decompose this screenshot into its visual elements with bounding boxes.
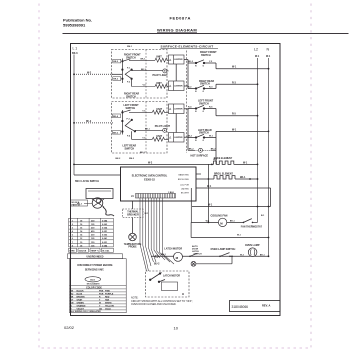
wire L2 bus (257, 58, 259, 222)
right front switch label (in box) (124, 54, 141, 60)
wire N bus (268, 58, 270, 256)
wire L1 to right box dotted (74, 73, 113, 75)
svg-text:BROIL ELEMENT: BROIL ELEMENT (214, 173, 234, 175)
left front switch (right column) (198, 100, 214, 106)
hot surface pilot light (188, 149, 195, 151)
color code table rows (70, 289, 127, 310)
svg-text:UNGROUNDED: UNGROUNDED (87, 257, 104, 259)
svg-text:YELLOW: YELLOW (105, 305, 114, 307)
wire to L2 y84.3 (216, 83, 258, 85)
svg-text:LATCH MOTOR: LATCH MOTOR (163, 275, 180, 278)
switch S2 left front contacts (122, 110, 136, 139)
svg-text:SWITCH: SWITCH (200, 83, 210, 86)
svg-text:W-2: W-2 (87, 72, 92, 74)
temperature probe (129, 233, 137, 241)
limiter box 4 (167, 133, 184, 143)
fan thermostat (244, 219, 252, 223)
small ref box (71, 200, 88, 206)
svg-text:L 1: L 1 (73, 47, 78, 51)
main border box (71, 44, 281, 316)
svg-text:LIMITER: LIMITER (174, 59, 183, 61)
svg-text:BAKE ELEMENT: BAKE ELEMENT (214, 157, 233, 160)
cooling fan circuit (191, 188, 268, 238)
svg-text:W-2: W-2 (148, 163, 153, 165)
latch switch contacts (149, 273, 165, 283)
svg-text:W-1: W-1 (208, 205, 213, 207)
svg-text:TAN: TAN (105, 298, 110, 301)
svg-text:W-1: W-1 (232, 67, 237, 69)
svg-text:W-1: W-1 (266, 56, 271, 58)
svg-text:N: N (267, 48, 270, 52)
dashed enclosure right edge (186, 51, 188, 154)
svg-text:(N) RED: (N) RED (181, 189, 189, 191)
left rear switch label (in box) (123, 145, 137, 151)
wire L1 feed control (74, 174, 121, 176)
svg-text:COOLING FAN: COOLING FAN (211, 214, 228, 217)
svg-text:SWITCH: SWITCH (125, 147, 135, 150)
svg-text:LIMITER: LIMITER (174, 85, 183, 87)
electronic oven control box U1 (121, 167, 197, 201)
latch illustration bracket (86, 189, 113, 199)
svg-text:THERMAL: THERMAL (127, 211, 139, 214)
svg-text:UNIT: UNIT (156, 108, 162, 111)
svg-text:LIMITER: LIMITER (174, 108, 183, 110)
limiter box 3 (167, 104, 184, 114)
svg-text:PILOT LIGHT: PILOT LIGHT (155, 125, 171, 128)
svg-text:W-1: W-1 (232, 129, 237, 131)
svg-text:LATCH: LATCH (192, 250, 199, 253)
svg-text:0.064: 0.064 (102, 227, 108, 230)
svg-text:OVEN DOOR CLOSED AND UNLOCKED.: OVEN DOOR CLOSED AND UNLOCKED. (131, 303, 177, 306)
crop mark right dotted (310, 4, 312, 348)
svg-text:PUR: PUR (99, 293, 104, 295)
header rule (63, 33, 348, 35)
surface switch box left (dashed) (112, 102, 168, 154)
svg-text:L2: L2 (254, 48, 258, 52)
svg-text:ALL WIRING 105°C INSULATED: ALL WIRING 105°C INSULATED (70, 310, 101, 313)
terminal box BK-2 (113, 59, 121, 63)
terminal box BK-5 (113, 131, 121, 135)
crop mark left dotted (38, 4, 40, 348)
switch S1 right front contacts (122, 59, 133, 87)
svg-text:BROIL RED: BROIL RED (178, 179, 190, 181)
svg-text:0.084: 0.084 (102, 219, 108, 222)
svg-text:PINK: PINK (105, 290, 110, 292)
svg-text:SW # LATCH SWITCH: SW # LATCH SWITCH (75, 180, 99, 183)
dashed divider box1 (145, 50, 147, 99)
svg-text:IN. DIA.: IN. DIA. (102, 249, 110, 252)
svg-text:10: 10 (174, 326, 179, 331)
svg-text:(L1) PUR: (L1) PUR (180, 185, 189, 187)
auto door latch switch label (192, 245, 202, 256)
svg-text:DISCONNECT POWER BEFORE: DISCONNECT POWER BEFORE (77, 265, 113, 267)
svg-text:WHITE: WHITE (105, 302, 112, 304)
svg-text:SWITCH: SWITCH (201, 54, 211, 57)
svg-text:W-1: W-1 (255, 56, 260, 58)
svg-text:BROWN: BROWN (77, 296, 85, 298)
svg-text:BK-6: BK-6 (72, 52, 78, 55)
svg-text:LIMITER: LIMITER (174, 137, 183, 139)
thermal breaker box (123, 209, 144, 218)
svg-text:GN: GN (70, 302, 74, 304)
svg-text:BAKE RED: BAKE RED (178, 174, 189, 177)
svg-text:0.051: 0.051 (102, 231, 108, 233)
svg-text:BK-1: BK-1 (240, 177, 246, 179)
svg-text:REV. A: REV. A (262, 304, 270, 308)
svg-text:UNIT: UNIT (156, 135, 162, 138)
svg-text:GRAY: GRAY (77, 298, 83, 301)
svg-text:ES300 1S: ES300 1S (144, 179, 155, 182)
latch switch box (dashed) (146, 271, 190, 297)
svg-text:W-1: W-1 (243, 163, 248, 165)
left rear switch (right column) (198, 129, 212, 135)
svg-text:PILOT LIGHT: PILOT LIGHT (153, 74, 169, 77)
wire limiter column verticals (176, 60, 188, 151)
svg-text:RED: RED (105, 296, 110, 298)
svg-text:TEMP °C: TEMP °C (91, 250, 100, 252)
wire gauge table (69, 218, 114, 247)
svg-text:0.084: 0.084 (102, 244, 108, 247)
disconnect power box (70, 259, 127, 313)
pilot light right group (132, 70, 163, 72)
wire control to right rail (196, 187, 271, 189)
svg-text:PART 12: PART 12 (72, 203, 81, 206)
svg-text:W: W (99, 302, 101, 304)
svg-text:BK WHT: BK WHT (181, 193, 190, 195)
svg-text:1 BLK: 1 BLK (168, 192, 175, 194)
svg-text:WIRING DIAGRAM: WIRING DIAGRAM (157, 27, 197, 32)
wire bake feed (196, 173, 201, 175)
right front switch (right column) (200, 51, 217, 57)
wire thermal breaker to probe (132, 201, 134, 209)
limiter box 1 (167, 55, 184, 64)
svg-text:SWITCH: SWITCH (199, 102, 209, 105)
left front switch label (in box) (124, 104, 140, 110)
wire mid horizontal (192, 206, 271, 208)
svg-text:TEMPERATURE: TEMPERATURE (124, 243, 142, 246)
svg-text:LATCH MOTOR: LATCH MOTOR (164, 247, 182, 250)
svg-text:GREEN: GREEN (77, 302, 85, 304)
svg-text:PNK: PNK (99, 290, 104, 292)
svg-text:FED087A: FED087A (170, 16, 191, 21)
svg-text:W-1: W-1 (207, 186, 212, 188)
wire L1 to left box dotted (74, 122, 113, 124)
oven light lower row (191, 256, 232, 266)
svg-text:BU-2: BU-2 (154, 263, 160, 265)
svg-text:ORANGE: ORANGE (77, 304, 87, 307)
svg-text:GAUGE: GAUGE (79, 249, 87, 252)
svg-text:BK: BK (70, 290, 73, 292)
svg-text:SWITCH: SWITCH (126, 95, 136, 98)
svg-text:BU-1: BU-1 (90, 279, 96, 281)
svg-text:VIOLET: VIOLET (77, 308, 85, 310)
right rear switch (right column) (199, 80, 214, 86)
svg-text:FAN THERMOSTAT: FAN THERMOSTAT (241, 226, 263, 229)
svg-text:BLUE: BLUE (77, 293, 83, 295)
svg-text:0.052: 0.052 (102, 235, 108, 237)
Publication No. text (63, 17, 92, 27)
svg-text:ELECTRONIC OVEN CONTROL: ELECTRONIC OVEN CONTROL (132, 175, 168, 178)
svg-text:318045066: 318045066 (232, 305, 249, 309)
control box wire labels (178, 174, 190, 195)
terminal box BK-3 (113, 77, 121, 81)
svg-text:WIRE: WIRE (69, 250, 75, 252)
wire L1 bus (73, 55, 75, 176)
wire to N y131.4 (216, 130, 269, 132)
wires right column verticals (112, 63, 217, 138)
wire bake row left (74, 163, 214, 165)
svg-text:GD: GD (99, 308, 103, 310)
svg-text:BK-2: BK-2 (188, 61, 194, 63)
connector strip J4 (136, 194, 176, 199)
dashed divider box2 (145, 102, 147, 154)
svg-text:OVEN LAMP SWITCH: OVEN LAMP SWITCH (211, 248, 236, 251)
surface switch box right (dashed) (112, 50, 168, 99)
svg-text:SERVICING UNIT.: SERVICING UNIT. (85, 269, 105, 271)
NOTE text (131, 297, 193, 306)
svg-text:PURPLE: PURPLE (105, 293, 114, 295)
right rear switch label (in box) (124, 93, 139, 99)
svg-text:BR: BR (70, 296, 73, 298)
svg-text:BLACK: BLACK (77, 289, 85, 292)
svg-text:PROBE: PROBE (128, 247, 137, 249)
oven lamp row wire (151, 255, 174, 257)
limiter box 2 (167, 81, 184, 91)
svg-text:BREAKER: BREAKER (127, 213, 139, 216)
SURFACE-ELEMENTS-CIRCUIT title (161, 45, 214, 49)
crop mark bottom dotted (42, 347, 311, 349)
svg-text:HOT SURFACE: HOT SURFACE (191, 154, 209, 157)
svg-text:AUTO: AUTO (192, 245, 198, 248)
svg-text:SN 12345678: SN 12345678 (87, 283, 101, 286)
svg-text:SWITCH: SWITCH (126, 56, 136, 59)
svg-text:UNIT: UNIT (156, 55, 162, 58)
ungrounded row (68, 254, 123, 259)
terminal box BK-4 (113, 114, 121, 118)
svg-text:GOLD: GOLD (105, 308, 111, 310)
latch illustration body (92, 198, 103, 209)
svg-text:RF-2: RF-2 (86, 121, 92, 123)
svg-text:BU: BU (70, 293, 73, 295)
svg-text:5995398091: 5995398091 (63, 22, 86, 27)
caution oval (85, 277, 101, 282)
svg-text:0.031: 0.031 (102, 242, 108, 244)
wire to L2 y115.7 (216, 115, 258, 117)
part number box (230, 301, 281, 312)
svg-text:0.063: 0.063 (102, 224, 108, 226)
svg-text:SWITCH: SWITCH (126, 107, 136, 110)
svg-text:SURFACE-ELEMENTS-CIRCUIT: SURFACE-ELEMENTS-CIRCUIT (161, 45, 214, 49)
svg-text:SM-2: SM-2 (129, 158, 135, 160)
svg-text:0.041: 0.041 (102, 237, 108, 240)
svg-text:OVEN LAMP: OVEN LAMP (245, 244, 260, 247)
svg-text:SM-1: SM-1 (127, 46, 133, 48)
wire to N y68.7 (216, 68, 269, 70)
ribbon cable wires (140, 198, 174, 271)
svg-text:02/02: 02/02 (64, 325, 75, 330)
